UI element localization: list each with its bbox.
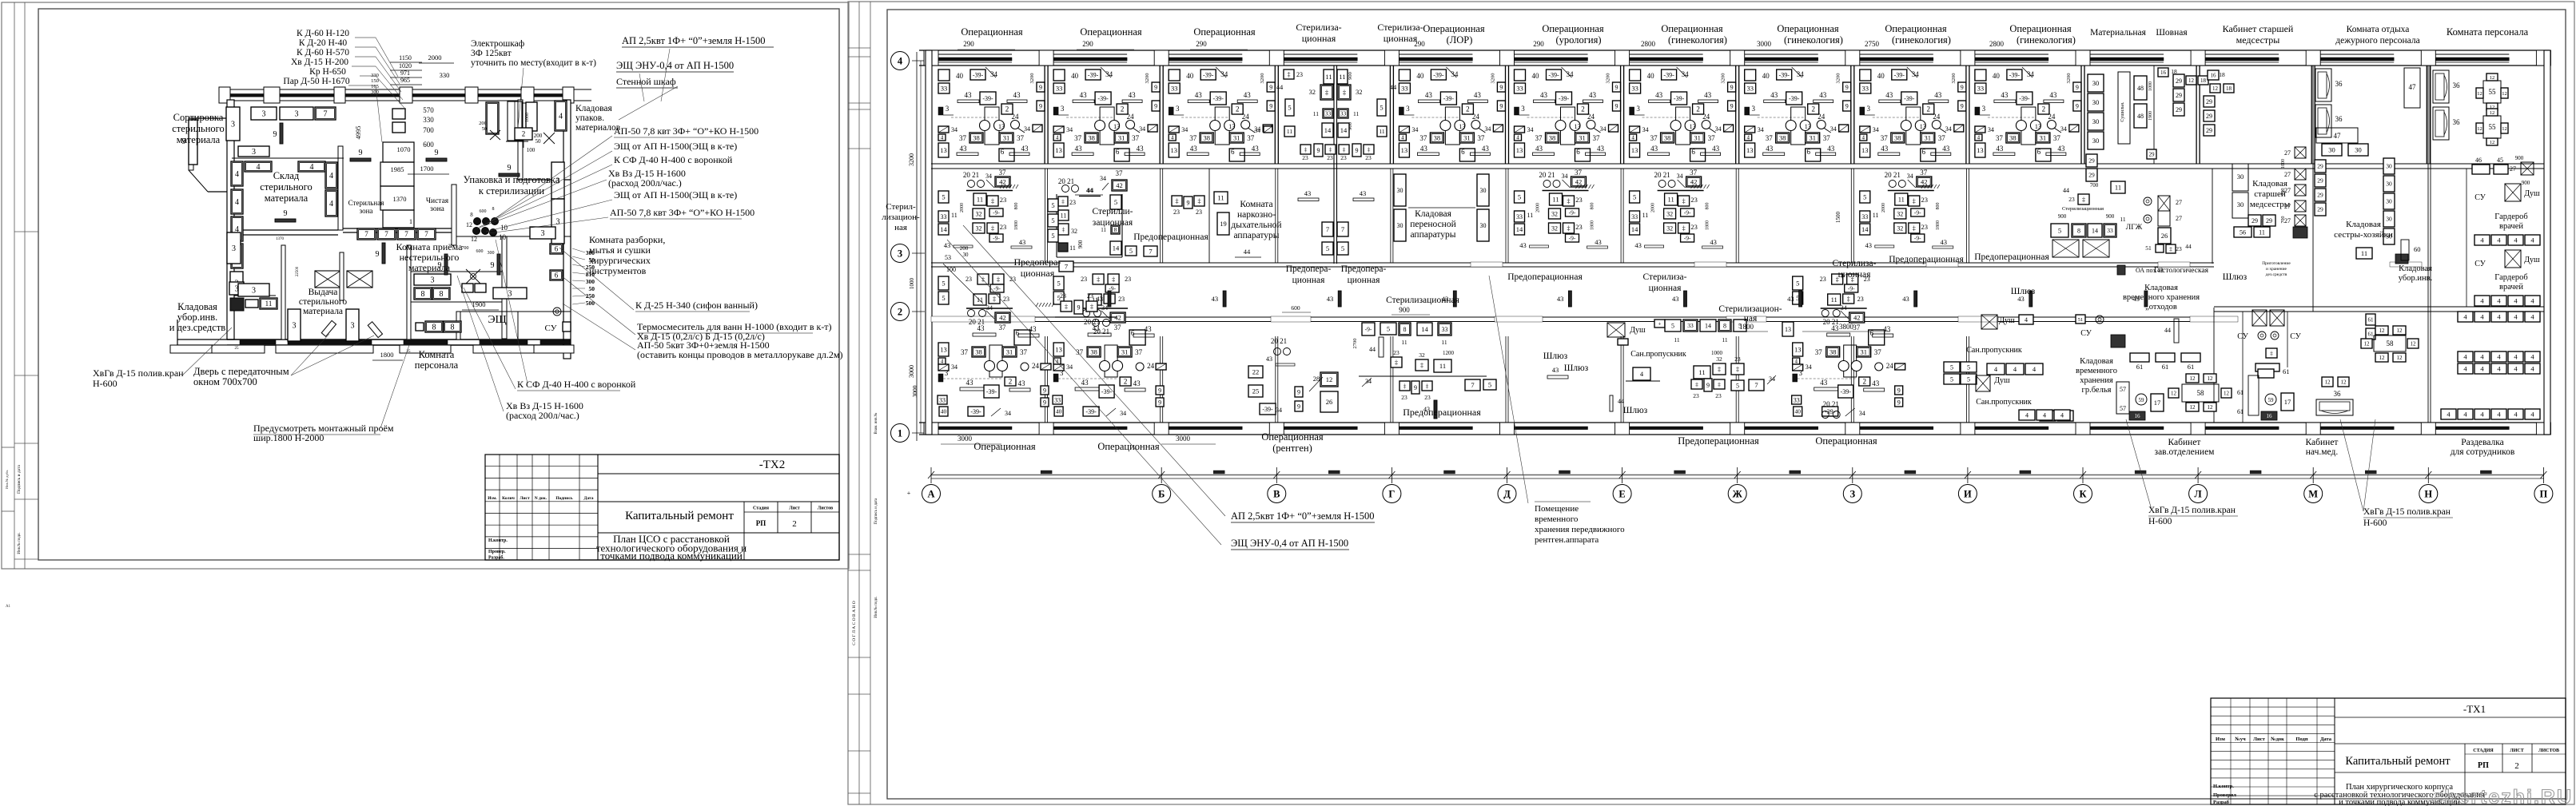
svg-text:АП 2,5квт 1Ф+ “0”+земля Н-1500: АП 2,5квт 1Ф+ “0”+земля Н-1500 — [1231, 510, 1374, 522]
svg-text:Гардероб: Гардероб — [2494, 273, 2527, 282]
svg-text:3: 3 — [556, 218, 560, 227]
svg-text:-39-: -39- — [1262, 406, 1273, 413]
sheet 1 outer border — [2, 2, 849, 569]
svg-text:3000: 3000 — [1757, 40, 1772, 48]
svg-text:12: 12 — [2490, 140, 2495, 145]
svg-text:Операционная: Операционная — [1815, 435, 1877, 447]
svg-text:ЭЩ ЭНУ-0,4 от АП Н-1500: ЭЩ ЭНУ-0,4 от АП Н-1500 — [1231, 538, 1348, 549]
svg-text:3: 3 — [351, 322, 355, 331]
svg-text:Комната персонала: Комната персонала — [2447, 26, 2529, 38]
svg-text:43: 43 — [1557, 295, 1564, 303]
svg-text:Комната отдыха: Комната отдыха — [2347, 25, 2410, 34]
svg-text:Стенной шкаф: Стенной шкаф — [616, 76, 676, 87]
svg-text:12: 12 — [2171, 391, 2177, 397]
svg-text:(гинекология): (гинекология) — [2017, 34, 2076, 46]
svg-text:12: 12 — [2341, 379, 2347, 386]
axis Е — [1613, 485, 1631, 503]
mid rooms partitions — [1045, 169, 1046, 263]
axis П — [2534, 485, 2553, 503]
dark equipment dots cluster — [473, 217, 480, 224]
svg-text:ционная: ционная — [1838, 270, 1871, 280]
svg-text:33: 33 — [1325, 110, 1332, 117]
svg-text:‡: ‡ — [1198, 197, 1201, 204]
svg-text:6: 6 — [555, 272, 559, 280]
svg-text:9: 9 — [284, 209, 288, 218]
svg-text:500: 500 — [586, 300, 595, 307]
room Операционная top row bay 4 — [1399, 67, 1505, 161]
svg-text:Стерилизацион-: Стерилизацион- — [1718, 304, 1782, 314]
svg-text:61: 61 — [2136, 363, 2144, 371]
svg-text:6: 6 — [555, 245, 559, 253]
svg-text:З: З — [1849, 489, 1855, 500]
svg-text:+: + — [907, 490, 911, 497]
svg-text:Приготовление: Приготовление — [2262, 261, 2291, 266]
svg-text:3000: 3000 — [1176, 435, 1191, 443]
svg-text:33: 33 — [1340, 110, 1347, 117]
svg-text:9: 9 — [1356, 147, 1359, 154]
svg-text:Лист: Лист — [789, 506, 800, 511]
svg-text:23: 23 — [1069, 199, 1076, 206]
svg-text:44: 44 — [2185, 243, 2192, 250]
svg-text:К СФ Д-40 Н-400 с воронкой: К СФ Д-40 Н-400 с воронкой — [517, 379, 636, 390]
svg-text:chertezhi.RU: chertezhi.RU — [2431, 786, 2573, 806]
svg-text:-ТХ1: -ТХ1 — [2463, 703, 2486, 715]
svg-text:‡: ‡ — [1090, 303, 1093, 310]
svg-text:5: 5 — [1380, 104, 1383, 112]
svg-text:12: 12 — [2325, 379, 2331, 386]
svg-text:ЛИСТОВ: ЛИСТОВ — [2538, 748, 2559, 753]
svg-text:врачей: врачей — [2499, 283, 2523, 292]
svg-text:7: 7 — [1065, 263, 1068, 271]
sheet 1 title block — [485, 455, 839, 560]
svg-text:29: 29 — [2206, 127, 2212, 134]
svg-text:61: 61 — [2237, 389, 2244, 396]
long leader lines sheet2 — [963, 225, 1225, 516]
svg-text:29: 29 — [2176, 92, 2182, 99]
svg-text:51: 51 — [2145, 244, 2152, 252]
room Операционная top row bay 2 — [1169, 67, 1275, 161]
svg-text:Операционная: Операционная — [1777, 23, 1839, 34]
vertical partitions top row — [1044, 66, 1045, 164]
svg-text:44: 44 — [1086, 186, 1093, 194]
svg-text:Разраб.: Разраб. — [488, 555, 504, 561]
axis К — [2074, 485, 2092, 503]
svg-text:Проверял: Проверял — [2213, 792, 2236, 798]
svg-text:23: 23 — [1424, 394, 1431, 401]
svg-text:18: 18 — [2171, 68, 2177, 75]
svg-text:9: 9 — [1297, 403, 1300, 410]
sink cross symbol — [466, 269, 480, 284]
svg-text:27: 27 — [2284, 149, 2291, 157]
corridor shelves 43 — [1108, 291, 1111, 307]
svg-text:ЭЩ от АП Н-1500(ЭЩ в к-те): ЭЩ от АП Н-1500(ЭЩ в к-те) — [614, 141, 737, 152]
mid room cluster bay 0 — [938, 169, 1032, 249]
svg-text:11: 11 — [1439, 362, 1446, 370]
svg-text:61: 61 — [2188, 363, 2195, 371]
svg-text:12: 12 — [2397, 355, 2403, 361]
svg-text:Предоперационная: Предоперационная — [1133, 232, 1208, 242]
svg-text:переносной: переносной — [1410, 220, 1455, 229]
svg-text:хранения передвижного: хранения передвижного — [1535, 525, 1625, 534]
svg-text:Капитальный ремонт: Капитальный ремонт — [2345, 755, 2451, 768]
svg-text:Стерилизационная: Стерилизационная — [1386, 296, 1460, 305]
svg-text:Н-600: Н-600 — [2363, 518, 2387, 528]
svg-text:43: 43 — [1212, 295, 1219, 303]
svg-text:2750: 2750 — [1865, 40, 1880, 48]
axis М — [2304, 485, 2323, 503]
svg-text:дежурного персонала: дежурного персонала — [2335, 36, 2419, 46]
plan CSO: internal walls — [338, 146, 343, 230]
svg-text:Кр Н-650: Кр Н-650 — [309, 67, 346, 77]
svg-text:5: 5 — [1488, 381, 1491, 389]
svg-text:1: 1 — [409, 217, 412, 225]
svg-text:34: 34 — [1100, 175, 1106, 182]
svg-text:36: 36 — [2453, 81, 2461, 89]
svg-text:А: А — [927, 489, 934, 500]
svg-text:11: 11 — [2115, 184, 2121, 192]
svg-text:Лист: Лист — [2253, 737, 2265, 742]
svg-text:12: 12 — [2477, 91, 2482, 97]
svg-text:СУ: СУ — [2080, 329, 2092, 338]
svg-text:‡: ‡ — [1695, 381, 1698, 388]
svg-text:ЛГЖ: ЛГЖ — [2126, 224, 2143, 232]
svg-text:58: 58 — [2387, 339, 2395, 347]
svg-text:56: 56 — [2240, 228, 2246, 236]
svg-text:9: 9 — [1077, 304, 1081, 311]
svg-text:12: 12 — [2379, 355, 2386, 361]
svg-text:№док: №док — [2271, 737, 2284, 742]
svg-text:14: 14 — [1421, 325, 1428, 333]
svg-text:‡: ‡ — [1329, 146, 1332, 153]
svg-text:(гинекология): (гинекология) — [1892, 34, 1951, 46]
svg-text:11: 11 — [1401, 339, 1407, 346]
svg-text:материала: материала — [303, 307, 343, 316]
bottom boxes Е-Ж — [1665, 320, 1681, 332]
axis В — [1268, 485, 1286, 503]
svg-text:8: 8 — [1723, 322, 1726, 329]
svg-text:43: 43 — [1327, 295, 1334, 303]
room Кладовая врем. хранения гр.белья — [2130, 353, 2149, 362]
svg-text:N док.: N док. — [535, 496, 547, 501]
svg-text:СУ: СУ — [2237, 332, 2249, 341]
svg-text:59: 59 — [2139, 397, 2145, 403]
svg-text:„отходов: „отходов — [2145, 303, 2177, 312]
svg-text:330: 330 — [371, 73, 379, 78]
svg-text:19: 19 — [1220, 220, 1227, 228]
axis З — [1843, 485, 1861, 503]
svg-text:23: 23 — [1196, 208, 1202, 216]
svg-text:Душ: Душ — [1994, 376, 2010, 385]
svg-text:11: 11 — [1069, 244, 1076, 252]
svg-text:32: 32 — [1716, 355, 1722, 363]
svg-text:СУ: СУ — [545, 324, 557, 333]
svg-text:ЭЩ: ЭЩ — [488, 314, 506, 326]
svg-text:‡: ‡ — [1343, 146, 1346, 153]
svg-text:29: 29 — [2252, 217, 2258, 224]
svg-text:Хв Д-15 Н-200: Хв Д-15 Н-200 — [291, 58, 348, 67]
svg-text:ХвГв Д-15 полив.кран: ХвГв Д-15 полив.кран — [2148, 506, 2236, 515]
svg-text:8: 8 — [421, 290, 425, 299]
svg-text:Н-600: Н-600 — [2148, 517, 2172, 526]
svg-text:900: 900 — [2515, 155, 2524, 161]
plan CSO: bottom walls of plan — [227, 339, 571, 340]
svg-text:43: 43 — [1902, 295, 1909, 303]
svg-text:В: В — [1273, 489, 1280, 500]
svg-text:27: 27 — [2176, 199, 2182, 206]
svg-text:61: 61 — [2162, 363, 2169, 371]
svg-text:(ЛОР): (ЛОР) — [1447, 34, 1473, 46]
svg-text:А1: А1 — [6, 605, 11, 609]
svg-text:Е: Е — [1618, 489, 1625, 500]
svg-text:персонала: персонала — [415, 359, 459, 371]
svg-text:8: 8 — [451, 324, 455, 332]
svg-text:12: 12 — [2208, 375, 2214, 382]
svg-text:9: 9 — [273, 130, 277, 139]
svg-text:Кладовая: Кладовая — [1415, 209, 1451, 219]
svg-text:ционная: ционная — [1384, 33, 1418, 44]
svg-text:медсестры: медсестры — [2236, 34, 2280, 46]
svg-text:12: 12 — [2379, 328, 2386, 334]
svg-text:‡: ‡ — [1065, 303, 1068, 310]
room Операционная bottom row bay 7 — [1792, 274, 1905, 417]
svg-text:‡: ‡ — [1403, 383, 1407, 390]
svg-text:(урология): (урология) — [1556, 34, 1602, 46]
plan CSO: left wing walls (Sortirovka room) — [189, 118, 193, 170]
svg-text:ХвГв Д-15 полив.кран: ХвГв Д-15 полив.кран — [93, 367, 184, 379]
plan CSO: left exterior wall — [227, 100, 234, 240]
hospital plan: corridor walls — [931, 262, 2214, 264]
sheet 2 outer border — [848, 2, 2574, 804]
svg-text:Сушильн.: Сушильн. — [2120, 101, 2125, 122]
svg-text:200: 200 — [479, 121, 487, 126]
svg-text:11: 11 — [1217, 194, 1224, 202]
svg-text:‡: ‡ — [1718, 366, 1721, 373]
svg-text:1000: 1000 — [525, 113, 530, 122]
svg-text:7: 7 — [364, 230, 368, 238]
svg-text:ЭЩ от АП Н-1500(ЭЩ в к-те): ЭЩ от АП Н-1500(ЭЩ в к-те) — [614, 189, 737, 201]
svg-text:Сан.пропускник: Сан.пропускник — [1966, 346, 2022, 355]
svg-text:11: 11 — [1441, 339, 1447, 346]
axis 1 — [891, 424, 910, 443]
svg-text:ХвГв Д-15 полив.кран: ХвГв Д-15 полив.кран — [2363, 507, 2451, 517]
room Материальная content — [2088, 74, 2104, 92]
svg-text:1700: 1700 — [420, 165, 434, 173]
svg-text:8: 8 — [1403, 326, 1407, 333]
svg-text:‡: ‡ — [1420, 362, 1423, 369]
svg-text:17: 17 — [2284, 398, 2291, 406]
axis 2 — [891, 303, 910, 321]
dark disinfection box — [230, 298, 244, 311]
furniture: left lower boxes — [227, 232, 241, 264]
svg-text:20 21: 20 21 — [1271, 337, 1287, 345]
svg-text:33: 33 — [1442, 326, 1448, 333]
svg-text:Кабинет: Кабинет — [2306, 438, 2339, 447]
axis letter circles bottom — [931, 474, 2544, 476]
predop cluster bay Б-В — [1061, 301, 1072, 312]
svg-text:4: 4 — [2025, 316, 2028, 324]
svg-text:12: 12 — [1326, 375, 1333, 383]
svg-text:26: 26 — [1326, 398, 1333, 406]
svg-text:11: 11 — [1061, 212, 1067, 219]
svg-text:29: 29 — [2317, 177, 2323, 185]
svg-text:13: 13 — [1785, 326, 1791, 333]
svg-text:9: 9 — [359, 149, 363, 157]
svg-text:30: 30 — [2237, 173, 2244, 181]
svg-text:4: 4 — [2043, 411, 2046, 419]
svg-text:59: 59 — [2268, 397, 2275, 403]
svg-text:12: 12 — [2411, 341, 2417, 347]
svg-text:ЭЩ ЭНУ-0,4 от АП Н-1500: ЭЩ ЭНУ-0,4 от АП Н-1500 — [616, 60, 734, 71]
svg-text:27: 27 — [2176, 215, 2182, 222]
sheet 2 side strip — [858, 2, 860, 804]
svg-text:11: 11 — [1722, 336, 1727, 343]
svg-text:Ж: Ж — [1733, 489, 1743, 500]
svg-text:23: 23 — [1060, 292, 1066, 300]
svg-text:9: 9 — [508, 164, 512, 173]
svg-text:Л: Л — [2194, 489, 2202, 500]
svg-text:убор.инв.: убор.инв. — [177, 312, 217, 323]
room Операционная bottom row bay 0 — [938, 274, 1051, 417]
axis 4 — [891, 52, 910, 70]
svg-text:14: 14 — [1340, 126, 1348, 134]
room Стерилизационная pair (bay В-Г) — [1333, 66, 1335, 264]
svg-text:‡: ‡ — [1426, 383, 1429, 390]
svg-text:Предопера-: Предопера- — [1286, 264, 1332, 274]
svg-text:Стерильная: Стерильная — [348, 199, 384, 207]
svg-text:Предопера-: Предопера- — [1013, 256, 1061, 268]
svg-text:9: 9 — [1414, 384, 1417, 391]
svg-text:гр.белья: гр.белья — [2082, 386, 2112, 395]
svg-text:Комната: Комната — [419, 349, 455, 360]
furniture: 4-boxes mid columns — [245, 161, 272, 172]
vydacha area X-tables — [315, 271, 340, 288]
svg-text:Стерил-: Стерил- — [886, 202, 916, 212]
room Кабинет зав.отделением content — [2136, 394, 2147, 405]
svg-text:ционная: ционная — [1649, 284, 1682, 293]
svg-text:Шовная: Шовная — [2156, 28, 2188, 38]
svg-text:7: 7 — [1326, 225, 1329, 233]
svg-text:12: 12 — [2502, 91, 2507, 97]
svg-text:100: 100 — [946, 266, 956, 273]
svg-text:1900: 1900 — [2148, 111, 2153, 121]
svg-text:Шлюз: Шлюз — [1543, 351, 1568, 361]
svg-text:700: 700 — [462, 246, 469, 251]
svg-text:23: 23 — [2176, 245, 2182, 252]
svg-text:окном 700х700: окном 700х700 — [193, 376, 257, 387]
svg-text:7: 7 — [1471, 381, 1474, 389]
svg-text:1800: 1800 — [1739, 323, 1754, 331]
svg-text:7: 7 — [1149, 248, 1152, 256]
svg-text:29: 29 — [2176, 106, 2182, 113]
svg-text:50: 50 — [589, 256, 595, 264]
svg-text:зона: зона — [430, 205, 445, 213]
svg-text:Комната разборки,: Комната разборки, — [589, 234, 665, 245]
svg-text:Стерилиза-: Стерилиза- — [1833, 259, 1877, 268]
svg-text:(оставить концы проводов в мет: (оставить концы проводов в металлорукаве… — [637, 349, 843, 360]
svg-text:11: 11 — [265, 300, 273, 308]
svg-text:Стерилизационная: Стерилизационная — [2062, 206, 2104, 212]
svg-text:8: 8 — [492, 207, 495, 212]
plan CSO: right exterior wall — [563, 100, 571, 359]
svg-text:4: 4 — [559, 113, 563, 121]
svg-text:61: 61 — [2368, 317, 2375, 324]
svg-text:36: 36 — [2335, 80, 2343, 88]
hospital plan: right exterior wall — [2544, 50, 2550, 435]
svg-text:42: 42 — [1116, 181, 1123, 189]
svg-text:23: 23 — [1365, 154, 1372, 161]
svg-text:34: 34 — [1255, 127, 1261, 134]
svg-text:30: 30 — [2386, 198, 2392, 205]
svg-text:нач.мед.: нач.мед. — [2306, 447, 2339, 457]
svg-text:+: + — [1658, 321, 1662, 328]
svg-text:11: 11 — [2361, 249, 2367, 257]
svg-text:2700: 2700 — [1352, 339, 1358, 349]
svg-text:7: 7 — [1754, 381, 1758, 389]
svg-text:П: П — [2540, 489, 2548, 500]
room Операционная top row bay 7 — [1745, 67, 1851, 161]
mid room cluster bay 8 — [1860, 169, 1953, 249]
svg-text:44: 44 — [2164, 327, 2171, 334]
svg-text:9: 9 — [376, 250, 380, 259]
svg-text:32: 32 — [1356, 88, 1363, 96]
svg-text:(рентген): (рентген) — [1272, 443, 1312, 454]
svg-text:11: 11 — [1339, 73, 1345, 81]
svg-text:570: 570 — [423, 106, 434, 114]
svg-text:16: 16 — [2267, 413, 2273, 419]
svg-text:(расход 200л/час.): (расход 200л/час.) — [608, 177, 682, 189]
svg-text:РП: РП — [756, 519, 766, 527]
svg-text:47: 47 — [2409, 83, 2417, 91]
svg-text:600: 600 — [423, 141, 434, 149]
svg-text:СУ: СУ — [2290, 332, 2302, 341]
svg-text:стерильного: стерильного — [260, 181, 312, 193]
washing machines row 7x4 — [357, 228, 376, 240]
svg-text:9: 9 — [491, 261, 495, 270]
svg-text:18: 18 — [2200, 77, 2207, 84]
svg-text:150: 150 — [371, 78, 379, 84]
svg-text:4995: 4995 — [354, 126, 362, 140]
svg-text:60: 60 — [2414, 245, 2421, 253]
svg-text:‡: ‡ — [1176, 197, 1179, 204]
svg-text:5: 5 — [1051, 201, 1054, 209]
svg-text:СУ: СУ — [2474, 193, 2486, 202]
svg-text:Кладовая: Кладовая — [2144, 284, 2178, 292]
hospital plan: bottom exterior wall — [919, 422, 2550, 423]
svg-text:36: 36 — [2453, 118, 2461, 126]
svg-text:37: 37 — [1116, 169, 1124, 177]
svg-text:дыхательной: дыхательной — [1231, 220, 1281, 230]
svg-text:Упаковка и подготовка: Упаковка и подготовка — [464, 174, 560, 185]
room Комната наркозно-дыхательной аппаратуры (В-Г mid) — [1208, 169, 1210, 263]
room Операционная top row bay 5 — [1515, 67, 1621, 161]
svg-text:Кладовая: Кладовая — [177, 301, 217, 312]
sheet 2 title block — [2211, 698, 2566, 804]
svg-text:(гинекология): (гинекология) — [1668, 34, 1727, 46]
svg-text:Кладовая: Кладовая — [2252, 179, 2287, 189]
svg-text:2: 2 — [898, 307, 902, 318]
svg-text:5: 5 — [1051, 216, 1054, 224]
svg-text:3000: 3000 — [958, 435, 973, 443]
svg-text:900: 900 — [1399, 306, 1410, 314]
svg-text:1500: 1500 — [1835, 212, 1841, 224]
svg-text:‡: ‡ — [1288, 71, 1291, 78]
svg-text:12: 12 — [2397, 328, 2403, 334]
svg-text:330: 330 — [423, 116, 434, 124]
svg-text:23: 23 — [1302, 154, 1308, 161]
svg-text:Разраб: Разраб — [2213, 800, 2230, 805]
svg-text:5: 5 — [1967, 363, 1970, 371]
svg-text:8: 8 — [440, 290, 444, 299]
